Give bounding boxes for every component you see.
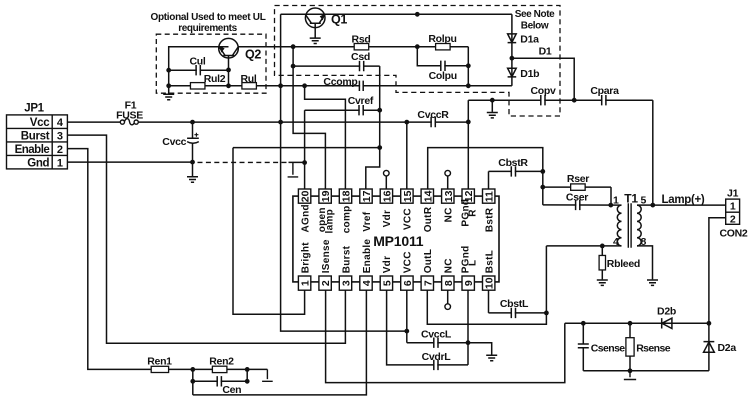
pin 6 box — [401, 276, 414, 290]
svg-text:6: 6 — [402, 280, 414, 286]
pin 4 box — [360, 276, 373, 290]
diode D1b — [508, 68, 540, 80]
svg-text:Burst: Burst — [21, 130, 50, 142]
junction AGnd link — [302, 160, 307, 165]
wire Csd right drop — [379, 66, 381, 148]
junction Csd left — [291, 64, 296, 69]
junction Cvref right — [377, 108, 382, 113]
wire Enable to pin 4 — [193, 290, 367, 395]
wire pin18 riser — [305, 86, 346, 190]
svg-text:Burst: Burst — [341, 245, 352, 273]
ground below Q1 — [310, 38, 321, 43]
svg-text:D2a: D2a — [718, 342, 737, 354]
wire pin7 OutL run — [427, 246, 546, 324]
ground T1 secondary — [647, 280, 658, 285]
junction Ren2 left — [190, 367, 195, 372]
capacitor Colpu — [429, 61, 457, 82]
open stub right of Ren2 — [262, 369, 273, 381]
junction pin6-Vcc rail — [404, 329, 409, 334]
svg-text:1: 1 — [300, 280, 312, 286]
svg-text:Cen: Cen — [222, 384, 241, 396]
connector J1 — [720, 187, 748, 239]
capacitor Cvcc — [162, 122, 199, 176]
ground below Cvcc — [187, 177, 198, 182]
wire pin20 riser — [304, 110, 306, 189]
wire J1 pin2 drop — [709, 218, 726, 323]
svg-text:VCC: VCC — [403, 208, 414, 230]
capacitor CvccR — [417, 109, 449, 127]
svg-text:Enable: Enable — [362, 239, 373, 274]
dashed outline optional section — [275, 6, 561, 117]
svg-text:Vdr: Vdr — [382, 256, 393, 274]
junction Cul left — [166, 68, 171, 73]
svg-text:Lamp(+): Lamp(+) — [662, 194, 705, 206]
svg-text:OutL: OutL — [423, 249, 434, 274]
transistor Q1 — [305, 8, 347, 38]
svg-text:lamp: lamp — [324, 209, 335, 234]
pin label open (pin 19) — [317, 207, 336, 233]
svg-text:Bright: Bright — [300, 242, 311, 274]
wire Rul2 rail — [169, 85, 512, 87]
svg-text:BstL: BstL — [485, 250, 496, 273]
svg-text:Q1: Q1 — [331, 13, 347, 27]
svg-text:Vcc: Vcc — [30, 117, 50, 129]
svg-text:D1a: D1a — [520, 34, 539, 46]
svg-text:19: 19 — [320, 190, 332, 202]
junction Cser right — [608, 203, 613, 208]
wire pin2 ISense run — [326, 290, 565, 382]
capacitor CvdrL — [387, 290, 468, 370]
wire sense top rail — [565, 322, 709, 324]
svg-text:Q2: Q2 — [245, 48, 261, 62]
wire pin15 riser — [406, 122, 408, 189]
wire pin6 VCC drop — [406, 290, 408, 343]
svg-text:R: R — [468, 209, 479, 217]
svg-text:3: 3 — [57, 130, 63, 142]
svg-text:Rul: Rul — [240, 73, 256, 85]
svg-text:Optional Used to meet UL: Optional Used to meet UL — [150, 12, 265, 23]
wire T1 pin5 to lamp node — [637, 204, 653, 206]
capacitor CbstR — [489, 157, 543, 190]
resistor Ren2 — [212, 366, 227, 372]
svg-text:Ccomp: Ccomp — [323, 76, 357, 88]
svg-text:Colpu: Colpu — [429, 70, 457, 82]
pin 12 box — [462, 189, 475, 203]
junction Csense top — [581, 321, 586, 326]
transistor Q2 — [219, 38, 262, 85]
svg-text:CbstR: CbstR — [498, 157, 528, 169]
svg-text:NC: NC — [444, 258, 455, 273]
svg-text:Gnd: Gnd — [27, 157, 49, 169]
svg-text:14: 14 — [422, 190, 434, 202]
junction Cen right — [245, 379, 250, 384]
capacitor Cul — [169, 55, 229, 75]
junction CbstR right — [540, 169, 545, 174]
wire Gnd from JP1 — [67, 161, 192, 163]
junction Rsd-wire left — [291, 44, 296, 49]
capacitor CvccL — [407, 329, 468, 348]
transformer T1 — [613, 192, 647, 248]
svg-text:17: 17 — [361, 190, 373, 202]
capacitor Csd — [293, 51, 380, 71]
svg-text:18: 18 — [341, 190, 353, 202]
pin 17 box — [360, 189, 373, 203]
wire T1 pin4 rail — [546, 245, 621, 247]
resistor Rul2 — [190, 83, 205, 89]
pin 10 box — [483, 276, 496, 290]
pin label PGnd (pin 9) — [460, 245, 478, 273]
wire pin9 PGndL drop — [467, 290, 469, 365]
junction Rbleed top — [600, 244, 605, 249]
resistor Rsense — [626, 323, 671, 371]
junction comp rail pin18 tap — [302, 83, 307, 88]
capacitor Copv — [530, 85, 556, 105]
junction Colpu column on comp rail — [466, 83, 471, 88]
resistor Rsd — [354, 44, 369, 50]
svg-text:CON2: CON2 — [720, 228, 748, 240]
pin 16 box — [380, 189, 393, 203]
svg-text:OutR: OutR — [423, 206, 434, 232]
svg-text:CvccR: CvccR — [417, 109, 449, 121]
svg-text:16: 16 — [381, 190, 393, 202]
junction ground tap — [490, 98, 495, 103]
junction Colpu right — [466, 63, 471, 68]
wire T1 pin8 down — [637, 246, 653, 280]
junction Vcc pin15 — [404, 120, 409, 125]
wire D1 to Copv column — [512, 58, 574, 100]
svg-text:5: 5 — [381, 280, 393, 286]
svg-text:2: 2 — [57, 144, 63, 156]
wire pin19 riser — [293, 47, 325, 190]
junction D1-Copv — [572, 98, 577, 103]
svg-text:Cvcc: Cvcc — [162, 136, 186, 148]
svg-text:Copv: Copv — [530, 85, 556, 97]
wire PGndL ground tap — [468, 343, 492, 355]
svg-text:JP1: JP1 — [24, 103, 44, 115]
svg-text:1: 1 — [57, 157, 63, 169]
wire sense bottom rail — [583, 370, 709, 372]
junction Q2 emitter — [226, 83, 231, 88]
junction Cul right — [226, 68, 231, 73]
svg-text:D1b: D1b — [520, 68, 539, 80]
svg-text:9: 9 — [463, 280, 475, 286]
svg-text:L: L — [468, 260, 479, 266]
capacitor CbstL — [489, 290, 547, 318]
wire OutR net — [428, 148, 543, 205]
pin 20 box — [298, 189, 311, 203]
junction comp rail left — [278, 83, 283, 88]
junction Rolpu left — [415, 44, 420, 49]
svg-text:Ren2: Ren2 — [209, 355, 234, 367]
svg-text:D2b: D2b — [657, 306, 676, 318]
ground sense — [624, 371, 636, 380]
capacitor Cen — [193, 369, 247, 396]
terminal pin16 Vdr — [385, 176, 387, 190]
junction Vcc-Cvcc — [190, 120, 195, 125]
svg-text:CvdrL: CvdrL — [422, 351, 452, 363]
fuse F1 — [116, 99, 143, 124]
wire Bright/Vref net — [233, 147, 380, 149]
svg-text:1: 1 — [613, 194, 619, 206]
svg-text:7: 7 — [422, 280, 434, 286]
wire Q1 top rail — [281, 13, 512, 15]
svg-text:10: 10 — [484, 277, 496, 289]
pin 14 box — [421, 189, 434, 203]
wire dashed AGnd link — [198, 161, 289, 163]
svg-text:requirements: requirements — [178, 23, 237, 34]
capacitor Cvref — [305, 95, 380, 115]
junction Rsense bottom — [628, 368, 633, 373]
svg-text:2: 2 — [320, 280, 332, 286]
ground UL — [163, 94, 174, 99]
op-amp U1 MP1011 body — [293, 196, 499, 282]
pin 8 box — [442, 276, 455, 290]
junction lamp node — [650, 203, 655, 208]
junction CvccL right — [466, 340, 471, 345]
junction Rsense top — [628, 321, 633, 326]
svg-text:MP1011: MP1011 — [373, 233, 424, 249]
diode D2b — [657, 306, 676, 329]
svg-text:FUSE: FUSE — [116, 109, 143, 121]
svg-text:Vdr: Vdr — [382, 210, 393, 228]
capacitor Ccomp — [323, 76, 363, 91]
svg-text:J1: J1 — [727, 187, 739, 199]
junction CbstL right — [544, 311, 549, 316]
svg-text:Cpara: Cpara — [590, 85, 619, 97]
connector JP1 — [7, 103, 68, 170]
svg-text:2: 2 — [730, 213, 736, 225]
pin 11 box — [483, 189, 496, 203]
wire D1 column — [511, 14, 513, 86]
svg-text:Cser: Cser — [566, 192, 588, 204]
svg-text:D1: D1 — [539, 45, 552, 57]
svg-text:ISense: ISense — [321, 239, 332, 273]
junction Rser left — [540, 185, 545, 190]
wire Colpu left — [417, 47, 468, 66]
wire Vcc rail — [67, 121, 468, 123]
pin 3 box — [339, 276, 352, 290]
wire Cpara to lamp — [652, 100, 654, 205]
pin 18 box — [339, 189, 352, 203]
svg-text:See Note: See Note — [515, 9, 555, 20]
pin 9 box — [462, 276, 475, 290]
svg-text:AGnd: AGnd — [300, 204, 311, 232]
svg-text:13: 13 — [443, 190, 455, 202]
junction Q1-rail / Rolpu column — [415, 12, 420, 17]
pin 13 box — [442, 189, 455, 203]
resistor Rser — [543, 173, 611, 205]
wire lamp to J1 — [653, 204, 726, 206]
svg-text:20: 20 — [300, 190, 312, 202]
pin 5 box — [380, 276, 393, 290]
svg-text:Rul2: Rul2 — [204, 73, 226, 85]
pin 1 box — [298, 276, 311, 290]
junction Vcc left drop — [278, 120, 283, 125]
ground PGndL — [486, 355, 497, 360]
pin label PGnd (pin 12) — [460, 199, 478, 227]
svg-text:CbstL: CbstL — [500, 298, 529, 310]
junction D1 mid — [510, 56, 515, 61]
svg-text:Rsd: Rsd — [352, 34, 371, 46]
capacitor Csense — [578, 323, 626, 371]
svg-text:BstR: BstR — [485, 207, 496, 232]
wire pin17 jog — [366, 148, 380, 190]
pin 7 box — [421, 276, 434, 290]
svg-text:Rser: Rser — [567, 173, 589, 185]
resistor Rolpu — [436, 44, 451, 50]
svg-text:Rbleed: Rbleed — [607, 258, 640, 270]
open stub near AGnd — [288, 162, 299, 177]
svg-text:Cul: Cul — [189, 55, 205, 67]
wire Burst from JP1 — [67, 135, 345, 343]
wire Bright drop to pin1 — [233, 148, 305, 315]
svg-text:T1: T1 — [624, 192, 638, 206]
capacitor Cpara — [590, 85, 619, 105]
svg-text:3: 3 — [341, 280, 353, 286]
svg-text:11: 11 — [484, 191, 496, 202]
svg-text:Csd: Csd — [351, 51, 370, 63]
ground tap on Copv rail — [491, 100, 493, 112]
pin 19 box — [319, 189, 332, 203]
ground Rbleed — [597, 280, 608, 285]
svg-text:Cvref: Cvref — [348, 95, 374, 107]
svg-text:Vref: Vref — [362, 211, 373, 231]
svg-text:Csense: Csense — [591, 343, 626, 355]
junction Rul2 left — [166, 83, 171, 88]
svg-text:8: 8 — [443, 280, 455, 286]
junction CvccR right end — [466, 120, 471, 125]
pin 2 box — [319, 276, 332, 290]
wire Copv rail — [468, 99, 653, 101]
dashed box UL optional — [156, 34, 266, 93]
ground Copv rail — [487, 113, 498, 118]
capacitor Cser — [543, 192, 622, 211]
wire Rsd rail — [238, 46, 468, 48]
svg-text:NC: NC — [444, 207, 455, 222]
diode D2a — [704, 323, 737, 371]
junction Ren2 right — [245, 367, 250, 372]
svg-text:comp: comp — [341, 205, 352, 233]
svg-text:Ren1: Ren1 — [147, 355, 172, 367]
wire Rolpu right drop — [467, 47, 469, 86]
svg-text:Rolpu: Rolpu — [428, 33, 456, 45]
terminal pin8 NC — [447, 290, 449, 304]
junction Gnd-Cvcc — [190, 160, 195, 165]
svg-text:VCC: VCC — [403, 251, 414, 273]
wire Enable from JP1 — [67, 149, 267, 370]
resistor Rul — [242, 83, 257, 89]
svg-text:4: 4 — [361, 280, 373, 286]
svg-text:Below: Below — [521, 21, 549, 32]
pin 15 box — [401, 189, 414, 203]
junction Cen left — [190, 379, 195, 384]
resistor Rbleed — [599, 246, 640, 280]
svg-text:15: 15 — [402, 190, 414, 202]
svg-text:1: 1 — [730, 201, 736, 213]
resistor Ren1 — [151, 366, 168, 372]
junction Vref tap — [377, 145, 382, 150]
terminal pin13 NC — [447, 176, 449, 190]
svg-text:PGnd: PGnd — [460, 245, 471, 273]
wire pin12 riser — [467, 100, 469, 189]
svg-text:Enable: Enable — [15, 144, 50, 156]
junction D2a top — [707, 321, 712, 326]
wire UL left branch — [169, 47, 229, 94]
wire left drop from Q1 rail — [281, 14, 407, 331]
svg-text:CvccL: CvccL — [421, 329, 452, 341]
diode D1a — [508, 34, 540, 46]
svg-text:Rsense: Rsense — [636, 343, 671, 355]
